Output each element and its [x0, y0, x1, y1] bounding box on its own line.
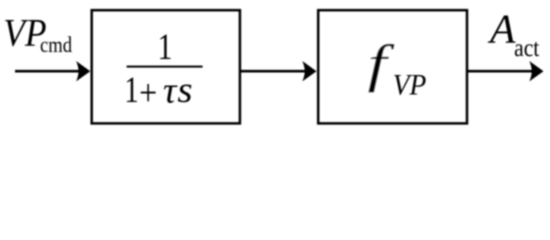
- block U2 (nonlinear function f_VP): [318, 10, 467, 123]
- wire: output arrow out of block U2: [468, 70, 533, 73]
- svg-text:A: A: [487, 6, 516, 52]
- wire: input arrow into block U1: [15, 70, 79, 73]
- svg-text:1: 1: [158, 27, 173, 68]
- fraction bar of block U1: [127, 66, 203, 68]
- svg-text:1: 1: [124, 71, 138, 111]
- wire: arrow from block U1 to block U2: [241, 70, 306, 73]
- svg-text:cmd: cmd: [40, 33, 72, 57]
- svg-text:τ: τ: [163, 71, 178, 111]
- arrowhead of output wire: [529, 61, 543, 81]
- svg-text:s: s: [177, 70, 192, 111]
- arrowhead of input wire: [76, 61, 90, 81]
- svg-text:f: f: [368, 35, 395, 93]
- svg-text:+: +: [139, 73, 157, 113]
- svg-text:act: act: [514, 35, 540, 63]
- svg-text:VP: VP: [393, 70, 427, 102]
- block U1 (first-order lag transfer function 1/(1+tau*s)): [92, 10, 240, 123]
- arrowhead of inter-block wire: [302, 61, 316, 81]
